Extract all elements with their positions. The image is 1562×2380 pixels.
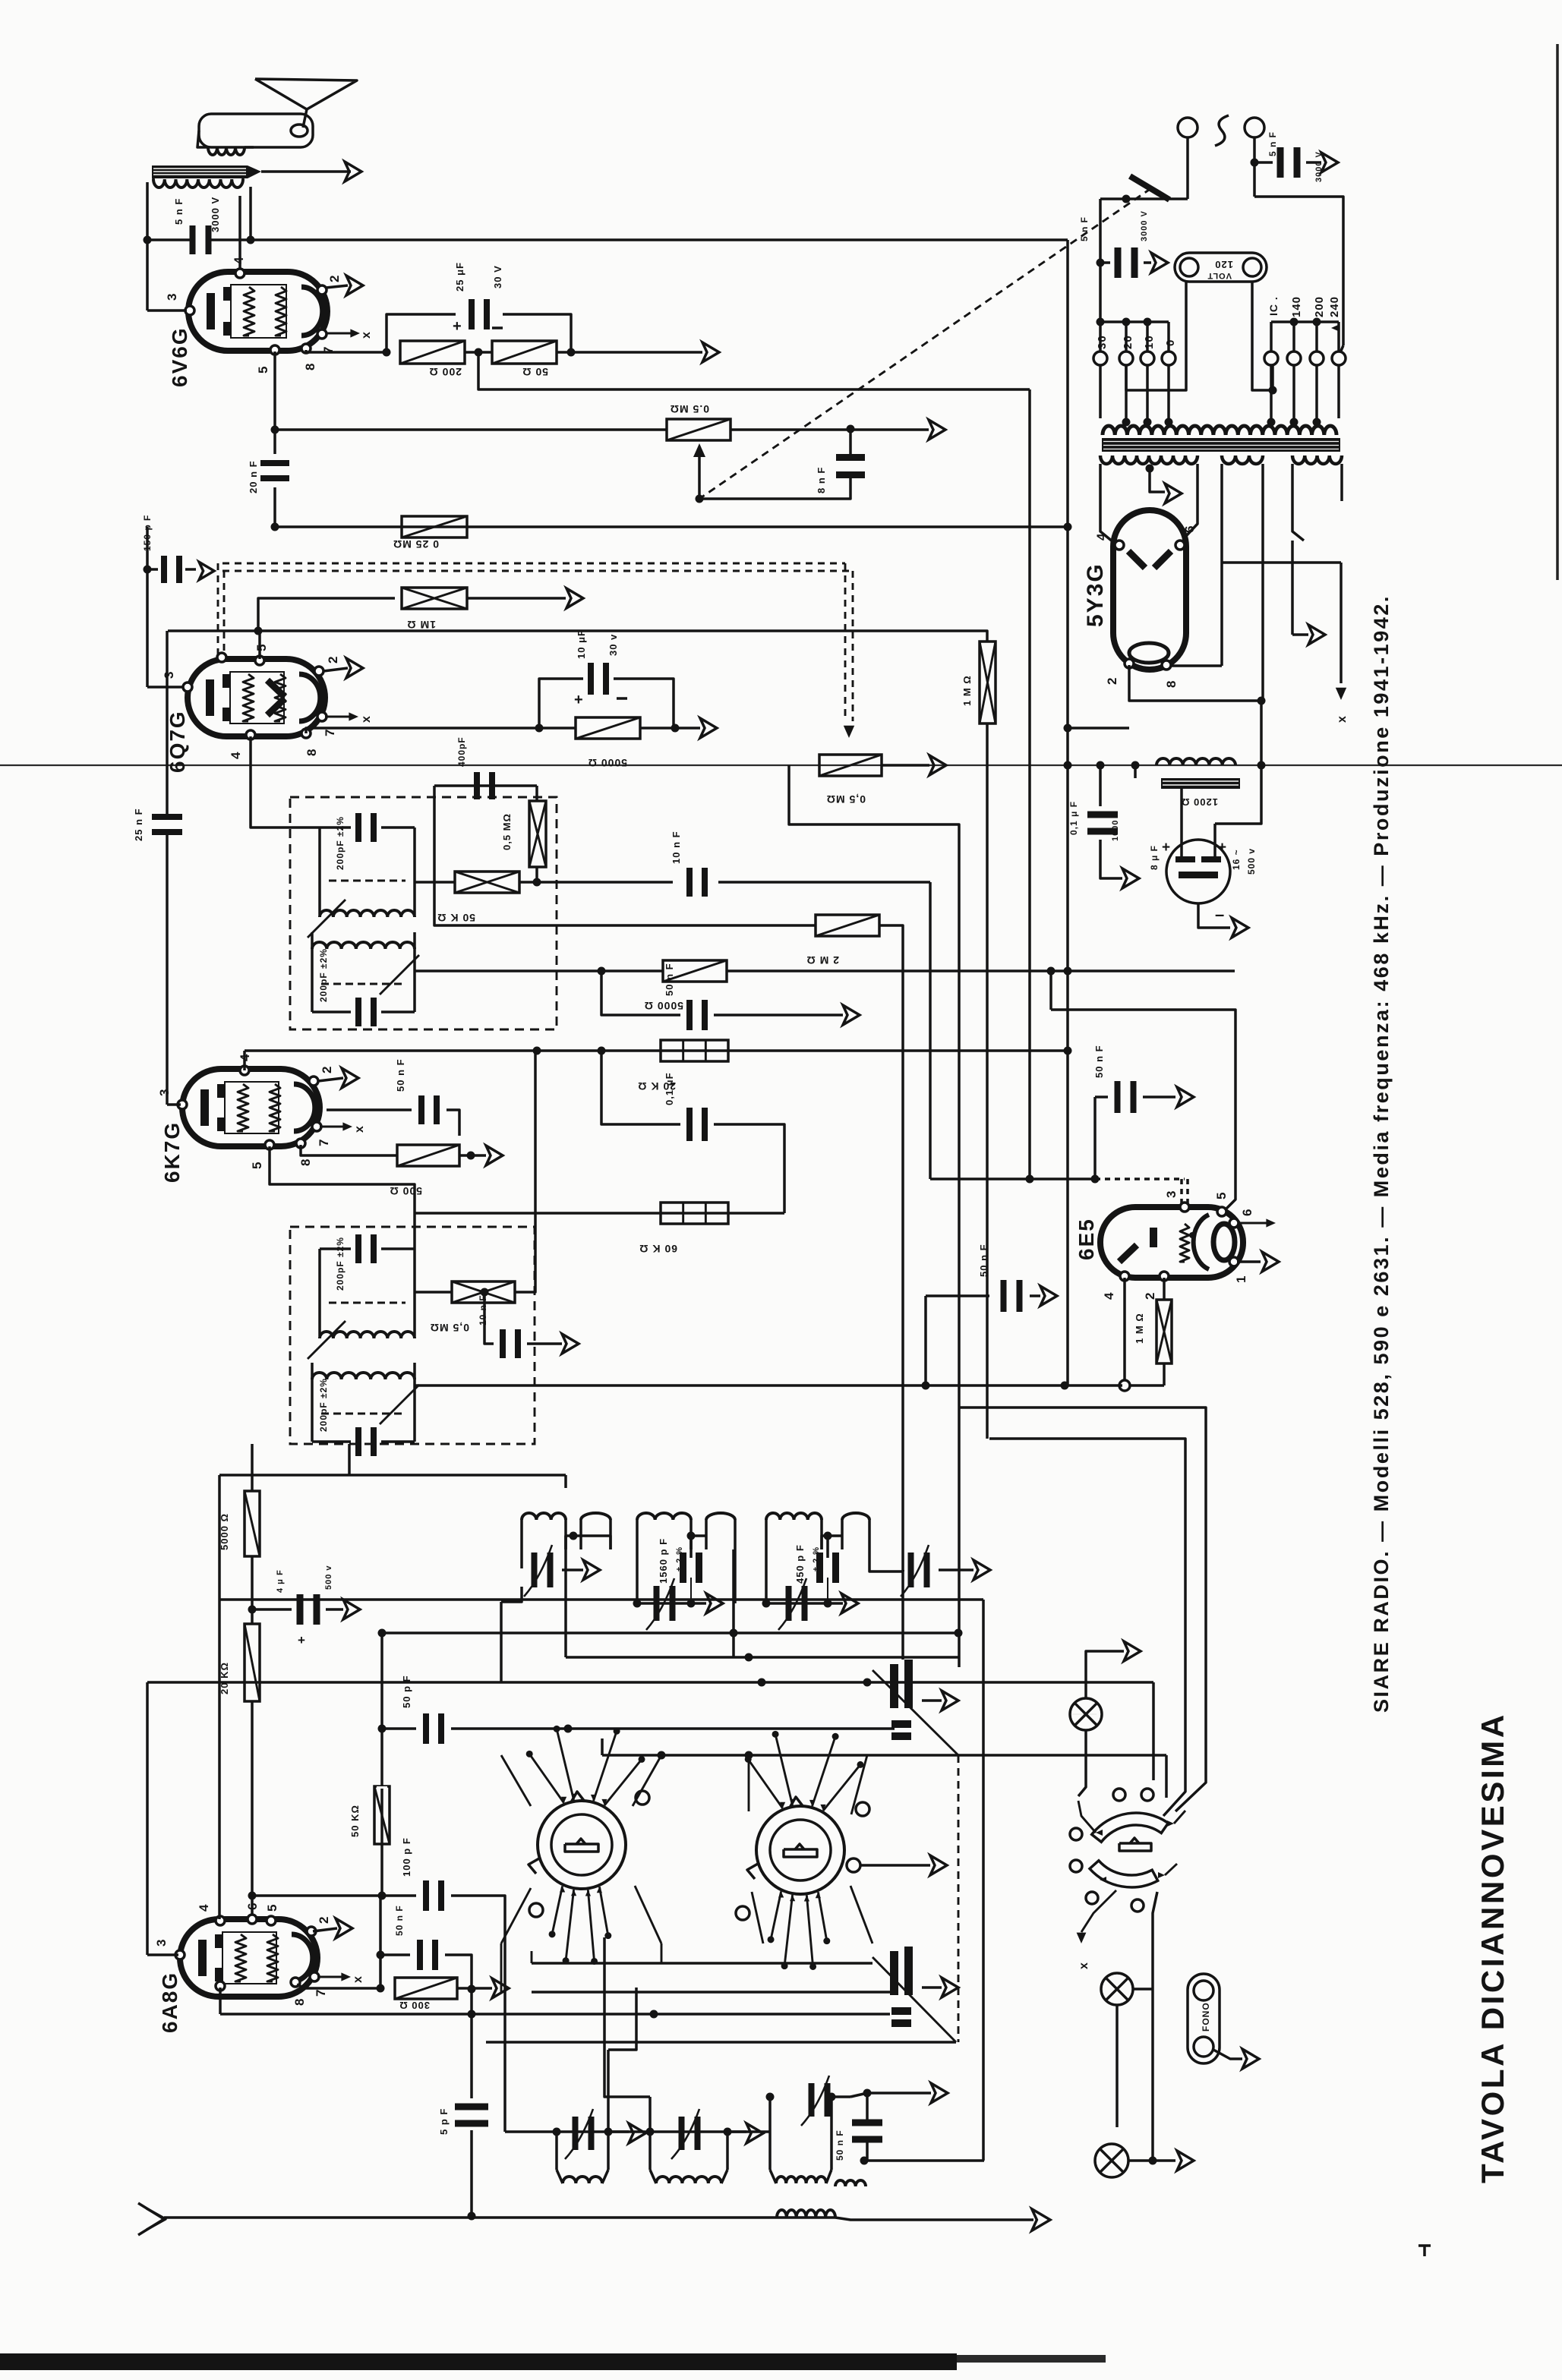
svg-text:1 M Ω: 1 M Ω xyxy=(961,675,973,706)
svg-text:6Q7G: 6Q7G xyxy=(166,710,189,773)
svg-text:4: 4 xyxy=(229,752,243,759)
svg-text:2 M Ω: 2 M Ω xyxy=(806,954,839,966)
svg-text:6V6G: 6V6G xyxy=(168,326,191,387)
svg-text:0,5 MΩ: 0,5 MΩ xyxy=(430,1322,469,1334)
svg-text:240: 240 xyxy=(1328,296,1341,317)
svg-text:16 ~: 16 ~ xyxy=(1231,849,1242,870)
svg-text:1 M Ω: 1 M Ω xyxy=(1134,1313,1145,1344)
svg-text:50 n F: 50 n F xyxy=(664,963,675,996)
svg-text:–: – xyxy=(1215,905,1225,924)
svg-text:3: 3 xyxy=(1164,1190,1179,1198)
svg-text:x: x xyxy=(1078,1962,1090,1969)
svg-text:4: 4 xyxy=(1102,1292,1116,1300)
svg-text:6: 6 xyxy=(1240,1209,1254,1216)
svg-text:20: 20 xyxy=(1122,335,1134,349)
svg-text:x: x xyxy=(360,715,373,723)
svg-text:FONO: FONO xyxy=(1201,2002,1211,2032)
svg-text:5Y3G: 5Y3G xyxy=(1083,563,1108,627)
svg-text:1M Ω: 1M Ω xyxy=(406,619,436,631)
svg-text:5: 5 xyxy=(265,1904,279,1912)
svg-text:4: 4 xyxy=(232,257,246,264)
svg-text:5000 Ω: 5000 Ω xyxy=(644,1000,683,1012)
svg-text:8: 8 xyxy=(303,363,317,370)
svg-text:3: 3 xyxy=(165,293,179,301)
svg-text:+: + xyxy=(298,1633,306,1647)
svg-text:10 n F.: 10 n F. xyxy=(478,1292,488,1326)
svg-text:7: 7 xyxy=(323,729,337,736)
svg-text:8: 8 xyxy=(1164,680,1179,688)
svg-text:± 2 %: ± 2 % xyxy=(675,1546,684,1571)
svg-text:3: 3 xyxy=(157,1089,172,1096)
svg-text:0,5 MΩ: 0,5 MΩ xyxy=(501,813,513,850)
svg-text:200: 200 xyxy=(1313,296,1326,317)
svg-text:8 n F: 8 n F xyxy=(816,467,827,493)
svg-text:300 Ω: 300 Ω xyxy=(399,2000,430,2011)
svg-text:3000 V: 3000 V xyxy=(1140,210,1149,241)
svg-text:4: 4 xyxy=(197,1904,211,1912)
svg-text:500 v: 500 v xyxy=(324,1565,333,1590)
svg-text:50 n F: 50 n F xyxy=(978,1244,989,1277)
svg-text:SIARE RADIO. — Modelli 528, 59: SIARE RADIO. — Modelli 528, 590 e 2631. … xyxy=(1370,594,1393,1713)
svg-text:x: x xyxy=(360,331,373,339)
svg-text:200pF ±2%: 200pF ±2% xyxy=(318,948,329,1002)
svg-text:120: 120 xyxy=(1214,259,1233,270)
svg-text:50 Ω: 50 Ω xyxy=(522,366,548,378)
svg-text:7: 7 xyxy=(317,1139,331,1146)
svg-text:0 25 MΩ: 0 25 MΩ xyxy=(393,538,439,550)
svg-text:6: 6 xyxy=(1182,525,1197,533)
svg-text:5: 5 xyxy=(254,644,269,651)
svg-text:50 p F: 50 p F xyxy=(401,1675,412,1708)
svg-text:5: 5 xyxy=(250,1162,264,1169)
svg-text:25 μF: 25 μF xyxy=(454,262,465,292)
svg-text:x: x xyxy=(353,1125,366,1133)
svg-text:200pF ±2%: 200pF ±2% xyxy=(335,1237,346,1291)
svg-text:5000 Ω: 5000 Ω xyxy=(588,757,627,769)
svg-text:3: 3 xyxy=(162,671,176,679)
svg-text:50 KΩ: 50 KΩ xyxy=(349,1805,361,1837)
svg-text:3000 V: 3000 V xyxy=(210,197,221,232)
svg-text:+: + xyxy=(453,318,462,335)
svg-text:20 n F: 20 n F xyxy=(248,460,259,493)
svg-text:0,1 μ F: 0,1 μ F xyxy=(1068,801,1079,835)
svg-text:4 μ F: 4 μ F xyxy=(276,1569,285,1593)
svg-text:6A8G: 6A8G xyxy=(158,1972,181,2033)
svg-text:6E5: 6E5 xyxy=(1074,1218,1098,1260)
svg-text:8: 8 xyxy=(292,1998,307,2006)
svg-text:2: 2 xyxy=(320,1066,334,1073)
svg-text:140: 140 xyxy=(1290,296,1303,317)
svg-text:3000 V: 3000 V xyxy=(1314,151,1324,182)
svg-text:IC .: IC . xyxy=(1267,296,1280,316)
svg-text:50 n F: 50 n F xyxy=(835,2129,845,2161)
svg-text:8 μ F: 8 μ F xyxy=(1149,845,1160,870)
svg-text:5 n F: 5 n F xyxy=(1079,216,1090,241)
svg-text:0.5 MΩ: 0.5 MΩ xyxy=(670,403,709,415)
svg-text:5 n F: 5 n F xyxy=(173,198,185,225)
svg-text:0,5 MΩ: 0,5 MΩ xyxy=(826,793,866,805)
svg-text:50 n F: 50 n F xyxy=(1093,1045,1105,1078)
svg-text:x: x xyxy=(1336,715,1349,723)
svg-text:2: 2 xyxy=(1143,1292,1157,1300)
svg-text:25 n F: 25 n F xyxy=(133,808,144,841)
svg-text:200pF ±2%: 200pF ±2% xyxy=(318,1378,329,1432)
svg-text:2: 2 xyxy=(326,656,340,664)
svg-text:5: 5 xyxy=(256,366,270,374)
svg-text:60 K Ω: 60 K Ω xyxy=(639,1243,677,1255)
svg-text:VOLT: VOLT xyxy=(1207,271,1232,280)
svg-text:8: 8 xyxy=(305,749,319,756)
svg-text:200 Ω: 200 Ω xyxy=(429,366,462,378)
svg-text:100 p F: 100 p F xyxy=(401,1837,412,1877)
svg-text:3: 3 xyxy=(154,1939,169,1947)
svg-text:500 Ω: 500 Ω xyxy=(390,1185,422,1197)
svg-text:8: 8 xyxy=(298,1158,313,1166)
svg-text:450 p F: 450 p F xyxy=(794,1544,806,1584)
svg-text:5 p F: 5 p F xyxy=(438,2108,450,2135)
svg-text:0: 0 xyxy=(1164,339,1177,346)
svg-text:50 n F: 50 n F xyxy=(395,1058,406,1092)
svg-text:5: 5 xyxy=(1214,1192,1229,1199)
svg-text:0,1 μF: 0,1 μF xyxy=(664,1072,675,1105)
svg-text:x: x xyxy=(352,1975,364,1983)
svg-text:2: 2 xyxy=(327,275,342,282)
svg-text:30: 30 xyxy=(1096,335,1109,349)
svg-text:500 v: 500 v xyxy=(1246,848,1257,875)
svg-text:+: + xyxy=(1162,840,1171,856)
svg-text:1200 Ω: 1200 Ω xyxy=(1181,796,1218,808)
svg-text:2: 2 xyxy=(317,1916,331,1924)
svg-text:50 K Ω: 50 K Ω xyxy=(437,912,475,924)
svg-text:150 p F: 150 p F xyxy=(142,515,153,551)
svg-text:1560 p F: 1560 p F xyxy=(658,1538,669,1584)
svg-text:5 n F: 5 n F xyxy=(1267,131,1278,156)
svg-text:TAVOLA DICIANNOVESIMA: TAVOLA DICIANNOVESIMA xyxy=(1475,1712,1510,2183)
svg-text:+: + xyxy=(1218,840,1227,856)
svg-text:± 2 %: ± 2 % xyxy=(812,1546,821,1571)
svg-text:6: 6 xyxy=(245,1902,260,1910)
svg-text:400pF: 400pF xyxy=(456,736,467,767)
svg-text:+: + xyxy=(574,692,584,708)
svg-text:10 n F: 10 n F xyxy=(671,831,682,864)
svg-text:50 n F: 50 n F xyxy=(394,1905,405,1936)
svg-text:30 V: 30 V xyxy=(492,265,503,288)
svg-text:1: 1 xyxy=(1234,1275,1248,1283)
svg-text:2: 2 xyxy=(1105,677,1119,685)
svg-text:10 μF: 10 μF xyxy=(576,629,587,659)
svg-text:1000 v: 1000 v xyxy=(1111,811,1120,841)
svg-text:10: 10 xyxy=(1143,335,1156,349)
svg-text:7: 7 xyxy=(314,1989,328,1997)
svg-text:6K7G: 6K7G xyxy=(160,1121,184,1183)
svg-text:200pF ±2%: 200pF ±2% xyxy=(335,816,346,870)
svg-text:30 v: 30 v xyxy=(607,634,619,656)
svg-text:4: 4 xyxy=(1094,533,1109,541)
